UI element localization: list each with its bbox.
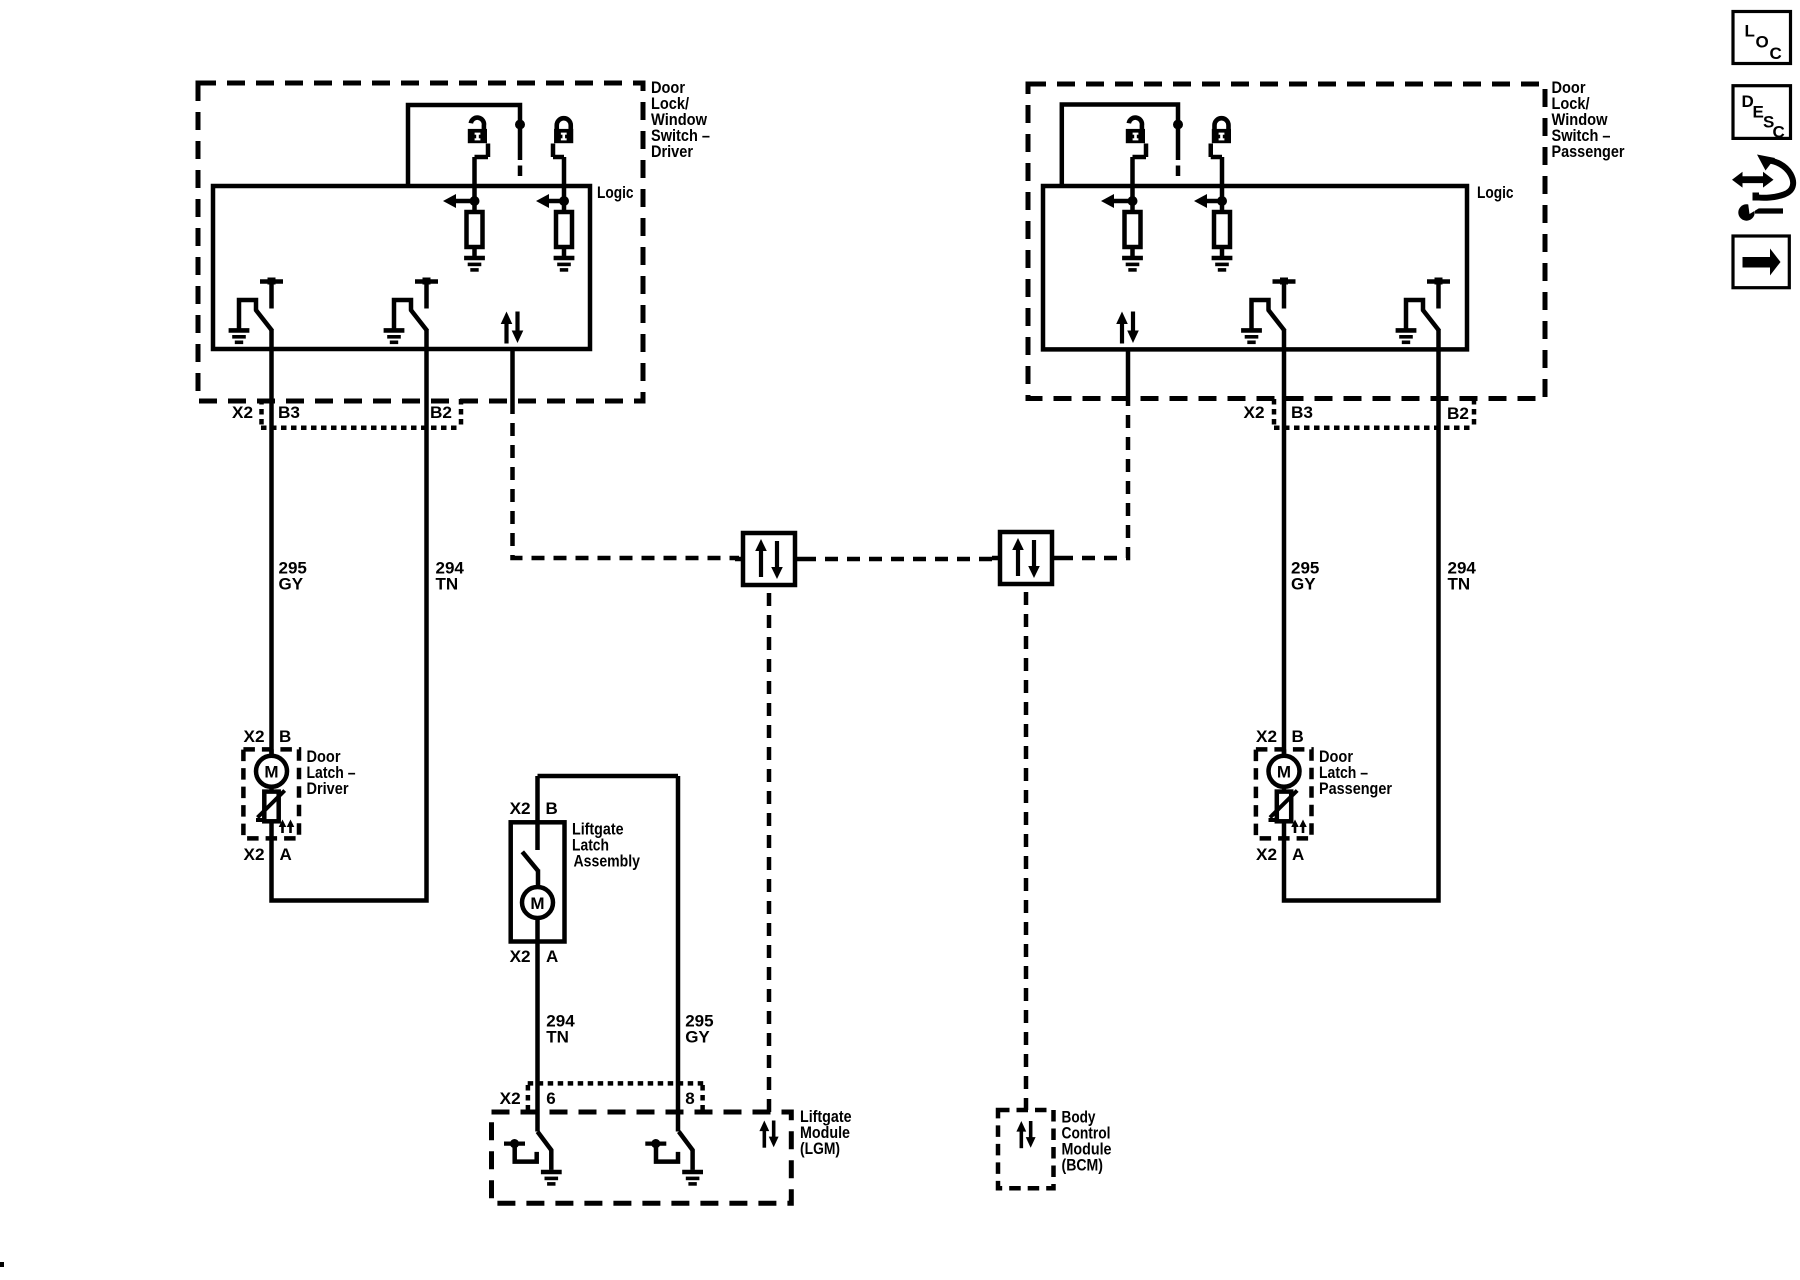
wire: liftgate latch A down to LGM pin 6 [535,918,540,1132]
arrows: serial data up/down (passenger logic) [1116,312,1139,344]
label: Door Lock/Window Switch - Passenger [1552,78,1625,161]
arrow: unlock sense (left) [1110,199,1133,204]
svg-text:B3: B3 [1291,403,1313,422]
svg-text:8: 8 [685,1089,694,1108]
svg-text:GY: GY [279,575,304,594]
ground: under unlock resistor (passenger) [1122,258,1143,270]
wire: passenger logic output (solid) [1126,349,1131,401]
switch: driver output B2 contact [384,278,438,343]
svg-text:Driver: Driver [307,779,349,798]
wire: driver logic output (solid) [510,349,515,401]
wire: liftgate latch B loop over to LGM pin 8 [538,776,679,1132]
svg-text:Driver: Driver [651,142,693,161]
connector strip X2 (driver) [261,425,461,430]
arrows: serial data up/down (BCM) [1016,1121,1035,1148]
label: Liftgate Module (LGM) [800,1107,852,1158]
liftgate module box (dashed) [492,1112,792,1203]
switch: liftgate latch ajar switch [522,852,538,871]
svg-text:M: M [530,894,544,913]
switch: LGM pin 8 to ground [645,1132,703,1184]
arrows: serial data up/down (driver logic) [501,312,524,344]
node: loop junction dot [515,120,525,130]
label: Liftgate Latch Assembly [572,820,640,871]
module box: Door Lock/Window Switch - Driver (dashed) [198,83,643,401]
icon: unlock padlock (passenger) [1126,118,1145,144]
resistor: lock pull-down (passenger) [1220,201,1225,212]
svg-text:(LGM): (LGM) [800,1139,840,1158]
connector strip X2 (LGM) [528,1081,704,1086]
wire: lock contact jog [553,144,564,204]
wire: driver logic output (dashed to connector) [513,401,740,558]
label: Door Lock/Window Switch - Driver [651,78,710,161]
svg-text:X2: X2 [510,947,531,966]
svg-text:GY: GY [685,1028,710,1047]
ground: under lock resistor (driver) [554,258,575,270]
arrow: unlock sense (left) [452,199,475,204]
switch: driver output B3 contact [229,278,283,343]
svg-text:C: C [1770,44,1782,63]
icon box: DESC [1733,86,1791,139]
switch: passenger output B2 contact [1396,278,1450,343]
svg-text:(BCM): (BCM) [1062,1155,1104,1174]
module box: Door Lock/Window Switch - Passenger (dashed) [1028,84,1545,399]
ground: under unlock resistor (driver) [464,258,485,270]
svg-text:B: B [546,799,558,818]
wire: lock contact jog [1211,144,1222,204]
wire: rocker common dash [518,166,523,177]
svg-text:Passenger: Passenger [1319,779,1392,798]
svg-text:B2: B2 [1447,404,1469,423]
svg-text:TN: TN [546,1028,569,1047]
connector: serial data pass-through (left) [735,533,803,585]
node: loop junction dot [1173,120,1183,130]
door latch - driver (motor + actuator) [243,727,299,864]
resistor: lock pull-down (driver) [562,201,567,212]
wire: supply loop to lock rocker common (passenger) [1062,105,1178,187]
svg-text:O: O [1756,33,1769,52]
wire: dashed from right connector to passenger logic [1060,401,1128,558]
node: unlock junction dot [470,196,480,206]
wire 294 TN: passenger B2 to latch return loop [1284,330,1439,901]
logic box U1 [213,186,590,349]
node: lock junction dot [559,196,569,206]
wire: dashed right connector down to BCM [1024,592,1029,1110]
svg-text:Logic: Logic [1477,183,1514,202]
svg-text:Logic: Logic [597,183,634,202]
icon: lock padlock (driver) [554,118,573,143]
door latch - passenger (motor + actuator) [1256,727,1312,864]
icon box: LOC [1733,12,1791,64]
svg-text:GY: GY [1291,575,1316,594]
svg-text:B3: B3 [278,403,300,422]
liftgate latch assembly box [511,822,565,941]
svg-text:A: A [546,947,558,966]
svg-text:Passenger: Passenger [1552,142,1625,161]
label: Door Latch - Driver [307,747,356,798]
wire: dashed left connector down to LGM [767,593,772,1112]
switch: LGM pin 6 to ground [504,1132,562,1184]
svg-text:6: 6 [546,1089,555,1108]
svg-text:TN: TN [1448,575,1471,594]
wire 294 TN: driver B2 to latch return loop [272,330,427,901]
wire: rocker common dash [1176,166,1181,177]
label: Body Control Module (BCM) [1062,1107,1112,1174]
resistor: unlock pull-down (driver) [472,201,477,212]
svg-text:X2: X2 [1244,403,1265,422]
wire: supply loop to lock rocker common [408,105,520,186]
icon: unlock padlock (driver) [468,118,487,144]
resistor: unlock pull-down (passenger) [1130,201,1135,212]
logic box U2 [1043,186,1467,349]
wire: unlock contact jog [1133,144,1147,204]
svg-text:X2: X2 [510,799,531,818]
connector strip X2 (passenger) [1274,425,1474,430]
wire: unlock contact jog [475,144,489,204]
wire: dashed between connectors [803,557,995,562]
svg-text:C: C [1773,123,1785,142]
switch: passenger output B3 contact [1241,278,1295,343]
body control module box (dashed) [998,1110,1054,1188]
arrow: lock sense (left) [545,199,564,204]
wire 295 GY: driver B3 to door latch [269,330,274,756]
icon: jump arrows with wrench [1732,155,1793,221]
wire 295 GY: passenger B3 to door latch [1282,330,1287,756]
connector: serial data pass-through (right) [992,532,1060,584]
page speck [0,1262,4,1267]
svg-text:B2: B2 [430,403,452,422]
icon: lock padlock (passenger) [1212,118,1231,143]
svg-text:X2: X2 [232,403,253,422]
svg-text:L: L [1745,21,1755,40]
node: lock junction dot [1217,196,1227,206]
arrows: serial data up/down (LGM) [759,1121,778,1148]
svg-text:TN: TN [436,575,459,594]
label: Door Latch - Passenger [1319,747,1392,798]
svg-text:Assembly: Assembly [574,852,641,871]
motor: liftgate latch M [522,887,553,918]
node: unlock junction dot [1128,196,1138,206]
icon box: next arrow [1733,236,1789,288]
ground: under lock resistor (passenger) [1212,258,1233,270]
arrow: lock sense (left) [1203,199,1222,204]
svg-text:X2: X2 [500,1089,521,1108]
